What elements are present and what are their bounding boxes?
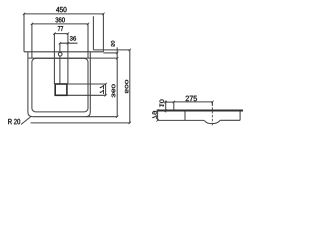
- dim text 77 rotated: [100, 85, 104, 94]
- dim text 450: [56, 7, 66, 12]
- wire 77 dimension with extensions: [54, 34, 68, 84]
- wire 36 dimension: [60, 42, 78, 44]
- wire bottom edge and extension: [33, 116, 118, 118]
- wire 360 right extension: [87, 24, 89, 58]
- wire R20 leader: [21, 117, 31, 125]
- dim text 360: [55, 17, 64, 22]
- wire 77 vertical dimension: [105, 84, 107, 95]
- wire drain top extension: [67, 83, 106, 85]
- node dimension ticks: [23, 13, 214, 124]
- node recess rounded square: [32, 58, 88, 112]
- dim text 360 rotated: [112, 84, 116, 97]
- wire side view top thick line: [157, 110, 243, 112]
- wire rim inner line: [28, 57, 117, 59]
- wire 360 dimension: [32, 23, 88, 25]
- wire basin wall section line: [184, 111, 186, 120]
- dim text 10 rotated: [160, 99, 164, 106]
- wire ledge vertical: [92, 16, 94, 50]
- wire side view bottom right: [220, 119, 240, 121]
- node drain square: [55, 84, 67, 95]
- dim text 500 rotated: [125, 80, 128, 93]
- dim text 79 rotated: [152, 111, 156, 119]
- dim text 50 rotated: [111, 41, 115, 47]
- wire side view trap: [204, 120, 220, 123]
- wire body right edge with corner: [86, 52, 91, 117]
- wire 10 dimension line: [165, 101, 167, 113]
- dim text 275: [186, 96, 197, 101]
- dim text 36: [70, 36, 76, 40]
- wire body left edge with R20 corner: [28, 52, 33, 117]
- wire drain centerline: [59, 56, 61, 84]
- wire plan top edge 450 wide: [24, 51, 103, 53]
- wire 10 upper extension: [164, 101, 174, 103]
- wire drain dashed centerline: [211, 103, 213, 127]
- wire side view bottom: [158, 119, 205, 121]
- wire rear ledge line: [93, 49, 129, 51]
- wire side view left edge: [157, 110, 159, 121]
- wire 275 dimension with extensions: [174, 102, 213, 110]
- wire 500 dimension line: [129, 50, 131, 123]
- wire top edge right extension: [103, 52, 117, 54]
- wire 360 left extension: [31, 24, 33, 58]
- wire front line: [31, 122, 130, 124]
- wire 450 dimension: [24, 14, 103, 52]
- dim text R 20: [8, 119, 20, 124]
- wire side view right edge: [239, 110, 241, 121]
- wire drain bottom extension: [67, 94, 106, 96]
- node tap hole circle: [58, 52, 62, 56]
- wire 50-360 dimension line: [116, 47, 118, 116]
- wire 36 left extension: [59, 43, 61, 52]
- dim text 77 top: [58, 26, 63, 31]
